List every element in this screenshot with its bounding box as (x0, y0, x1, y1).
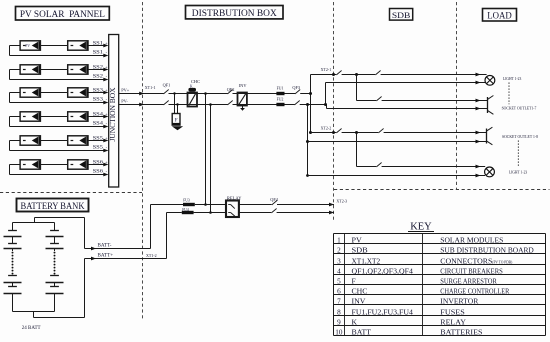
svg-text:FU1,FU2,FU3,FU4: FU1,FU2,FU3,FU4 (352, 307, 414, 316)
svg-text:SS4: SS4 (93, 121, 104, 127)
svg-text:SS1: SS1 (93, 40, 104, 46)
svg-text:XT2-1: XT2-1 (321, 67, 332, 72)
svg-text:PV SOLAR PANNEL: PV SOLAR PANNEL (20, 9, 105, 20)
svg-text:KEY: KEY (410, 222, 432, 233)
svg-text:SOCKET OUTLET1-7: SOCKET OUTLET1-7 (502, 105, 537, 110)
svg-text:RELAY: RELAY (440, 317, 466, 326)
svg-text:SUB DISTRBUTION BOARD: SUB DISTRBUTION BOARD (440, 245, 534, 254)
svg-text:8: 8 (337, 308, 341, 316)
svg-text:BATT+: BATT+ (98, 252, 114, 258)
svg-text:SS3: SS3 (93, 87, 104, 93)
svg-text:BATT: BATT (352, 327, 372, 336)
svg-text:INV: INV (352, 296, 367, 305)
svg-text:SS6: SS6 (93, 159, 104, 165)
svg-text:CHARGE CONTROLLER: CHARGE CONTROLLER (440, 286, 510, 295)
svg-text:BATTERIES: BATTERIES (440, 327, 482, 336)
svg-text:SS5: SS5 (93, 145, 104, 151)
svg-text:SOCKET OUTLET 1-8: SOCKET OUTLET 1-8 (502, 134, 538, 139)
svg-text:PV: PV (352, 235, 363, 244)
svg-text:FUSES: FUSES (440, 307, 465, 316)
svg-text:SS1: SS1 (93, 50, 104, 56)
svg-text:LIGHT 1-23: LIGHT 1-23 (509, 170, 527, 175)
svg-text:INV: INV (239, 83, 248, 88)
svg-text:K: K (352, 317, 358, 326)
svg-text:FU3: FU3 (183, 198, 190, 202)
svg-text:SDB: SDB (392, 10, 411, 20)
svg-text:DISTRBUTION BOX: DISTRBUTION BOX (192, 8, 277, 19)
svg-text:SS2: SS2 (93, 64, 104, 70)
svg-text:PV-: PV- (121, 98, 128, 103)
svg-text:FU4: FU4 (182, 208, 189, 212)
svg-text:XT2-2: XT2-2 (321, 126, 332, 131)
svg-text:JUNCTION BOX: JUNCTION BOX (109, 88, 117, 142)
svg-text:10: 10 (335, 328, 343, 336)
svg-text:5: 5 (337, 277, 341, 285)
svg-text:XT2-3: XT2-3 (336, 199, 347, 204)
svg-text:SS3: SS3 (93, 97, 104, 103)
svg-text:SURGE ARRESTOR: SURGE ARRESTOR (440, 276, 497, 285)
svg-text:1: 1 (337, 236, 341, 244)
svg-text:SS2: SS2 (93, 74, 104, 80)
svg-text:LOAD: LOAD (487, 11, 512, 21)
svg-text:QF4: QF4 (270, 197, 278, 202)
svg-text:24 BATT: 24 BATT (22, 326, 41, 331)
svg-text:3: 3 (337, 257, 341, 265)
svg-text:SS5: SS5 (93, 135, 104, 141)
svg-text:2: 2 (337, 246, 341, 254)
svg-text:7: 7 (337, 297, 341, 305)
svg-text:F: F (352, 276, 356, 285)
svg-text:QF1,QF2,QF3,QF4: QF1,QF2,QF3,QF4 (352, 266, 414, 275)
svg-text:QF1: QF1 (163, 82, 171, 87)
svg-text:PV: PV (25, 44, 30, 48)
svg-text:XT1-2: XT1-2 (146, 253, 157, 258)
svg-text:QF3: QF3 (292, 85, 300, 90)
svg-text:CIRCUIT BREAKERS: CIRCUIT BREAKERS (440, 266, 503, 275)
svg-text:SS4: SS4 (93, 111, 104, 117)
svg-text:CHC: CHC (352, 286, 368, 295)
svg-text:BATT-: BATT- (98, 242, 112, 248)
svg-text:FU2: FU2 (277, 98, 284, 102)
svg-text:BATTERY BANK: BATTERY BANK (21, 202, 85, 212)
svg-text:PV+: PV+ (121, 87, 130, 92)
svg-text:CHC: CHC (191, 79, 200, 84)
svg-text:F: F (175, 117, 178, 123)
svg-text:LIGHT 1-23: LIGHT 1-23 (503, 76, 521, 81)
svg-text:XT1,XT2: XT1,XT2 (352, 256, 381, 265)
svg-text:4: 4 (337, 267, 341, 275)
svg-text:FU1: FU1 (277, 87, 284, 91)
svg-text:SS6: SS6 (93, 169, 104, 175)
svg-text:XT1-1: XT1-1 (145, 85, 156, 90)
svg-text:SDB: SDB (352, 245, 368, 254)
svg-text:9: 9 (337, 318, 341, 326)
svg-text:6: 6 (337, 287, 341, 295)
svg-text:INVERTOR: INVERTOR (440, 296, 479, 305)
svg-text:SOLAR MODULES: SOLAR MODULES (440, 235, 503, 244)
